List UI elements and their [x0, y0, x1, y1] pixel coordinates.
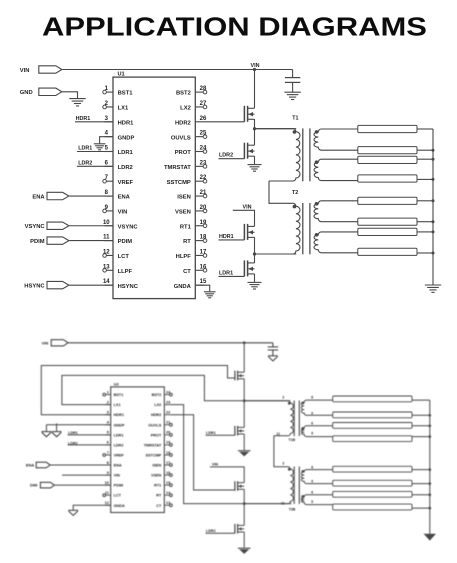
wire LX2 routing (pin 23)	[170, 405, 244, 504]
svg-text:HDR2: HDR2	[175, 120, 191, 126]
svg-text:ISEN: ISEN	[177, 195, 191, 201]
svg-text:14: 14	[103, 279, 110, 285]
transformer T1B core	[294, 401, 299, 437]
svg-text:TMRSTAT: TMRSTAT	[144, 443, 162, 447]
node brail-5	[429, 468, 432, 471]
input tag VIN (2nd diagram)	[42, 340, 68, 346]
wire VIN stub (bridge2 2nd)	[210, 467, 244, 483]
wire node C to Q6 drain	[243, 401, 245, 428]
svg-text:PROT: PROT	[175, 150, 192, 156]
lamp LAMP5	[358, 197, 417, 204]
svg-text:LDR2: LDR2	[219, 153, 233, 159]
wire Q6 source to ground	[243, 434, 245, 450]
pin 15 GNDA (U1 right)	[174, 279, 207, 290]
svg-text:DIM: DIM	[30, 483, 38, 488]
pin 16 CT (U1 right)	[183, 264, 207, 275]
node rail-5	[432, 199, 435, 202]
wire T1 primary to link	[269, 181, 293, 203]
svg-text:LDR1: LDR1	[118, 150, 134, 156]
svg-text:LDR2: LDR2	[118, 165, 133, 171]
wire node C to T1B primary	[244, 400, 290, 402]
input tag GND	[20, 88, 62, 96]
svg-text:RT: RT	[183, 239, 191, 245]
svg-text:LDR1: LDR1	[114, 433, 124, 437]
pin 10 VSYNC (U1 left)	[103, 220, 138, 231]
ground (GNDP a)	[42, 425, 52, 437]
wire lamp B1 to rail	[412, 399, 430, 401]
net label LDR1 (gate Q4)	[219, 270, 245, 276]
lamp LAMP2	[358, 147, 417, 154]
pin 20 PROT (U2 right)	[151, 431, 173, 438]
transformer T2 primary	[255, 203, 301, 254]
svg-text:RT: RT	[156, 494, 162, 498]
pin 19 RT1 (U1 right)	[180, 220, 207, 231]
wire lamp B8 to rail	[412, 507, 430, 509]
input tag VSYNC	[25, 222, 113, 230]
svg-text:10: 10	[103, 220, 110, 226]
capacitor C1	[285, 70, 300, 92]
node brail-7	[429, 493, 432, 496]
pin 21 OUVLS (U2 right)	[148, 421, 172, 428]
svg-text:6: 6	[311, 490, 313, 494]
svg-text:11: 11	[276, 432, 280, 436]
pin 15 RT1 (U2 right)	[154, 481, 172, 488]
svg-text:HSYNC: HSYNC	[24, 283, 45, 289]
pin 3 HDR1 (U1 left)	[105, 116, 135, 127]
pin 6 LDR2 (U2 left)	[105, 441, 124, 448]
transformer T1 secondary 2	[314, 159, 358, 180]
net label LDR1 (pin 5, 2nd)	[68, 431, 111, 435]
pin 18 SSTCMP (U2 right)	[145, 451, 172, 458]
wire lamp B2 to rail	[412, 414, 430, 416]
lamp LAMP4	[358, 175, 417, 182]
svg-text:VSYNC: VSYNC	[118, 224, 139, 230]
wire VIN to Q5 drain	[243, 343, 245, 372]
svg-text:TMRSTAT: TMRSTAT	[164, 165, 191, 171]
svg-text:11: 11	[103, 235, 110, 241]
net label VIN (bridge 2)	[243, 204, 252, 210]
svg-text:GNDA: GNDA	[174, 284, 192, 290]
svg-text:VREF: VREF	[114, 453, 125, 457]
svg-text:RT1: RT1	[154, 484, 161, 488]
pin 7 VREF (U2 left)	[103, 451, 125, 458]
wire lamp 6 to rail	[417, 221, 433, 223]
node brail-6	[429, 482, 432, 485]
node rail-7	[432, 230, 435, 233]
svg-text:PROT: PROT	[151, 433, 162, 437]
wire node D to T2B	[244, 503, 291, 505]
svg-text:10: 10	[105, 481, 109, 485]
svg-text:VIN: VIN	[212, 462, 218, 466]
wire Q7 source to node D	[243, 489, 245, 503]
node VIN junction	[253, 68, 256, 71]
svg-text:BST1: BST1	[118, 91, 134, 97]
input tag VIN	[20, 66, 62, 74]
wire Q5 source to node C	[243, 379, 245, 401]
svg-text:LLPF: LLPF	[118, 269, 133, 275]
svg-text:2: 2	[282, 396, 284, 400]
net label VIN (bridge2 2nd)	[212, 462, 218, 466]
svg-text:RT1: RT1	[180, 224, 192, 230]
svg-text:VIN: VIN	[20, 68, 30, 74]
pin 9 VIN (U1 left)	[103, 205, 127, 216]
pin 1 BST1 (U2 left)	[103, 390, 123, 397]
lamp LAMP-B4	[333, 436, 412, 442]
svg-text:2: 2	[282, 462, 284, 466]
transistor Q6 (LDR1 2nd)	[235, 426, 244, 436]
transistor Q7 (HDR2 2nd)	[235, 481, 244, 491]
input tag ENA (2nd)	[26, 462, 111, 468]
transformer T1 secondary 1	[314, 129, 358, 150]
wire LX1 routing (pin 2)	[62, 375, 244, 404]
input tag PDIM	[30, 237, 113, 245]
node D (bridge2 2nd)	[243, 502, 246, 505]
svg-text:8: 8	[311, 466, 313, 470]
wire VIN rail	[62, 69, 293, 71]
terminal labels T1B sec	[311, 395, 313, 435]
transformer T2 core	[303, 203, 310, 254]
svg-text:LDR1: LDR1	[206, 431, 216, 435]
ground (Q2 source)	[248, 165, 262, 172]
pin 1 BST1 (U1 left)	[103, 86, 133, 97]
wire VIN (pin 9, 2nd)	[62, 474, 111, 476]
svg-text:8: 8	[107, 461, 109, 465]
ground (Q4 source)	[248, 282, 262, 289]
transformer T1 core	[303, 128, 310, 181]
wire VIN to Q1 drain	[254, 70, 256, 109]
pin 24 BST2 (U2 right)	[152, 390, 173, 397]
pin 13 LLPF (U1 left)	[103, 264, 133, 275]
lamp LAMP-B6	[333, 480, 412, 486]
svg-text:BST2: BST2	[176, 91, 191, 97]
wire lamp 4 to rail	[417, 178, 433, 180]
svg-text:ENA: ENA	[114, 464, 122, 468]
node brail-8	[429, 507, 432, 510]
node rail-8	[432, 252, 435, 255]
svg-text:VSEN: VSEN	[151, 474, 162, 478]
wire node A to Q2 drain	[254, 129, 256, 146]
wire HDR1 routing (pin 3)	[41, 366, 235, 415]
svg-text:HDR1: HDR1	[219, 234, 234, 240]
svg-text:LX1: LX1	[118, 106, 129, 112]
pin 12 GNDA (U2 left)	[105, 501, 125, 508]
lamp LAMP7	[358, 228, 417, 235]
wire node B to Q4 drain	[254, 254, 256, 263]
ground (C1)	[284, 92, 300, 99]
svg-text:LCT: LCT	[118, 254, 130, 260]
node brail-4	[429, 435, 432, 438]
controller U2 box	[111, 382, 165, 513]
pin 23 LX2 (U2 right)	[154, 400, 170, 407]
svg-text:LX1: LX1	[114, 403, 121, 407]
net label HDR1 (pin 3)	[75, 116, 113, 122]
node rail-3	[432, 158, 435, 161]
transistor Q3 (HDR1)	[244, 224, 254, 240]
pin 16 VSEN (U2 right)	[151, 471, 172, 478]
wire lamp 5 to rail	[417, 200, 433, 202]
transformer T2B secondary 2	[301, 495, 332, 505]
pin 4 GNDP (U2 left)	[105, 421, 125, 428]
lamp LAMP-B3	[333, 423, 412, 429]
pin 21 ISEN (U1 right)	[177, 190, 207, 201]
wire GNDA (pin 15)	[195, 285, 209, 291]
transformer T2B core	[294, 467, 299, 504]
svg-text:HLPF: HLPF	[176, 254, 192, 260]
pin 9 VIN (U2 left)	[105, 471, 120, 478]
node C (bridge1 2nd)	[243, 399, 246, 402]
svg-text:HDR1: HDR1	[114, 413, 124, 417]
wire lamp B7 to rail	[412, 494, 430, 496]
wire Q3 source to node B	[254, 237, 256, 254]
pin 5 LDR1 (U2 left)	[105, 431, 124, 438]
input tag HSYNC	[24, 281, 113, 289]
net label LDR2 (pin 6, 2nd)	[68, 441, 111, 445]
svg-text:HDR2: HDR2	[151, 413, 161, 417]
title APPLICATION DIAGRAMS	[42, 13, 427, 42]
svg-text:HSYNC: HSYNC	[118, 284, 139, 290]
wire lamp B3 to rail	[412, 425, 430, 427]
wire lamp 3 to rail	[417, 158, 433, 160]
lamp LAMP1	[358, 125, 417, 132]
pin 22 HDR2 (U2 right)	[151, 411, 170, 418]
node VIN junction (2nd)	[243, 341, 246, 344]
net label LDR2 (gate Q2)	[219, 153, 245, 159]
svg-text:ENA: ENA	[118, 195, 131, 201]
node rail-2	[432, 149, 435, 152]
pin 17 HLPF (U1 right)	[176, 249, 207, 260]
transformer T1 primary	[255, 129, 301, 181]
input tag DIM (2nd)	[30, 482, 111, 488]
svg-text:ISEN: ISEN	[152, 464, 161, 468]
net label VIN (top rail)	[251, 63, 260, 69]
pin 5 LDR1 (U1 left)	[105, 146, 134, 157]
transformer T1B labels	[276, 396, 295, 442]
svg-text:15: 15	[200, 279, 207, 285]
svg-text:6: 6	[311, 421, 313, 425]
transformer T2B secondary 1	[301, 470, 332, 484]
pin 22 SSTCMP (U1 right)	[167, 175, 207, 186]
lamp LAMP-B2	[333, 412, 412, 418]
node brail-2	[429, 414, 432, 417]
wire node A to T1 primary	[255, 128, 297, 130]
wire GNDP (pin 4, 2nd)	[46, 424, 110, 426]
wire GNDA (pin 12, 2nd)	[73, 505, 111, 510]
svg-text:5: 5	[311, 500, 313, 504]
transistor Q1 (HDR2)	[244, 106, 254, 122]
transistor Q4 (LDR1)	[244, 260, 254, 276]
pin 12 LCT (U1 left)	[103, 249, 130, 260]
pin 11 PDIM (U1 left)	[103, 235, 132, 246]
wire lamp return rail	[432, 129, 434, 285]
svg-text:CT: CT	[183, 269, 191, 275]
wire GND	[62, 92, 78, 98]
svg-text:PDIM: PDIM	[114, 484, 124, 488]
lamp LAMP-B1	[333, 396, 412, 402]
svg-text:12: 12	[105, 501, 109, 505]
wire Q8 source to ground	[243, 532, 245, 547]
wire VIN stub (bridge 2)	[233, 210, 255, 226]
transformer T2 secondary 1	[314, 201, 358, 222]
svg-text:BST2: BST2	[152, 393, 162, 397]
pin 25 OUVLS (U1 right)	[171, 131, 207, 142]
pin 20 VSEN (U1 right)	[175, 205, 207, 216]
pin 4 GNDP (U1 left)	[105, 131, 135, 142]
pin 28 BST2 (U1 right)	[176, 86, 207, 97]
pin 7 VREF (U1 left)	[103, 175, 134, 186]
lamp LAMP6	[358, 218, 417, 225]
transformer T2B primary	[244, 467, 293, 504]
svg-text:LDR2: LDR2	[114, 443, 124, 447]
wire node B to T2 primary	[255, 253, 297, 255]
net label LDR1 (gate Q6)	[206, 431, 235, 436]
svg-text:PDIM: PDIM	[118, 239, 133, 245]
pin 8 ENA (U2 left)	[105, 461, 122, 468]
svg-text:5: 5	[107, 431, 109, 435]
wire lamp 8 to rail	[417, 252, 433, 254]
svg-text:T1: T1	[292, 116, 298, 122]
svg-text:LX2: LX2	[180, 106, 191, 112]
wire VIN rail (2nd)	[68, 342, 273, 344]
net label LDR2 (gate Q8)	[206, 529, 235, 534]
wire T1B to T2B link	[274, 436, 288, 467]
input tag ENA	[32, 192, 113, 200]
lamp LAMP3	[358, 156, 417, 163]
pin 13 CT (U2 right)	[156, 501, 172, 508]
svg-text:VSYNC: VSYNC	[25, 224, 46, 230]
wire lamp return rail (2nd)	[429, 400, 431, 534]
net label HDR1 (gate Q3)	[219, 234, 245, 240]
pin 8 ENA (U1 left)	[105, 190, 131, 201]
net label LDR1 (pin 5)	[77, 145, 113, 151]
svg-text:HDR1: HDR1	[76, 116, 91, 122]
pin 10 PDIM (U2 left)	[105, 481, 123, 488]
pin 2 LX1 (U1 left)	[103, 101, 129, 112]
pin 19 TMRSTAT (U2 right)	[144, 441, 173, 448]
svg-text:GND: GND	[20, 90, 33, 96]
svg-text:BST1: BST1	[114, 393, 124, 397]
svg-text:2: 2	[107, 400, 109, 404]
transformer T1B secondary 2	[301, 426, 332, 437]
node B (bridge2 output)	[253, 252, 256, 255]
svg-text:GNDA: GNDA	[114, 504, 125, 508]
pin 14 RT (U2 right)	[156, 491, 172, 498]
op-amp/controller U1 box	[113, 72, 195, 299]
ground (GNDP)	[94, 144, 106, 150]
ground (GNDP b)	[52, 423, 62, 436]
transformer T1B secondary 1	[301, 400, 332, 415]
transformer T2B labels	[281, 462, 296, 512]
svg-text:SSTCMP: SSTCMP	[145, 453, 161, 457]
wire lamp B5 to rail	[412, 469, 430, 471]
svg-text:LDR2: LDR2	[78, 160, 92, 166]
transformer T1 label	[292, 116, 298, 122]
svg-text:APPLICATION DIAGRAMS: APPLICATION DIAGRAMS	[42, 13, 427, 42]
svg-text:3: 3	[107, 411, 109, 415]
transistor Q2 (LDR2)	[244, 143, 254, 159]
lamp LAMP8	[358, 248, 417, 255]
node A (bridge1 output)	[253, 127, 256, 130]
svg-text:U2: U2	[114, 382, 120, 387]
pin 27 LX2 (U1 right)	[180, 101, 207, 112]
ground (Q8 source)	[238, 548, 251, 554]
svg-text:GNDP: GNDP	[118, 135, 135, 141]
lamp LAMP-B7	[333, 491, 412, 497]
svg-text:T2: T2	[292, 190, 298, 196]
svg-text:CT: CT	[156, 504, 162, 508]
transformer T2 label	[292, 190, 298, 196]
svg-text:LDR1: LDR1	[219, 270, 233, 276]
ground (lamp rail 2nd)	[424, 534, 436, 541]
pin 18 RT (U1 right)	[183, 235, 207, 246]
pin 2 LX1 (U2 left)	[105, 400, 121, 407]
transformer T2 secondary 2	[314, 232, 358, 253]
svg-text:VIN: VIN	[243, 204, 252, 210]
lamp LAMP-B8	[333, 504, 412, 510]
ground (GND input)	[69, 99, 85, 106]
pin 14 HSYNC (U1 left)	[103, 279, 139, 290]
svg-text:PDIM: PDIM	[30, 239, 45, 245]
ground (C2)	[268, 356, 278, 361]
svg-text:6: 6	[107, 441, 109, 445]
node brail-3	[429, 425, 432, 428]
svg-text:VIN: VIN	[118, 210, 128, 216]
net label LDR2 (pin 6)	[77, 160, 113, 166]
wire lamp B6 to rail	[412, 483, 430, 485]
wire lamp 2 to rail	[417, 149, 433, 151]
ground (GNDA)	[204, 292, 216, 298]
wire lamp 7 to rail	[417, 231, 433, 233]
lamp LAMP-B5	[333, 466, 412, 472]
pin 11 LCT (U2 left)	[103, 491, 122, 498]
svg-text:5: 5	[311, 432, 313, 436]
svg-text:VIN: VIN	[251, 63, 260, 69]
svg-text:1: 1	[107, 390, 109, 394]
node rail-6	[432, 220, 435, 223]
transistor Q5 (HDR1 2nd)	[235, 371, 244, 381]
svg-text:23: 23	[166, 400, 170, 404]
svg-text:9: 9	[311, 480, 313, 484]
pin 23 TMRSTAT (U1 right)	[164, 160, 207, 171]
svg-text:7: 7	[107, 451, 109, 455]
svg-text:ENA: ENA	[26, 463, 35, 468]
svg-text:LDR1: LDR1	[78, 145, 92, 151]
svg-text:OUVLS: OUVLS	[148, 423, 162, 427]
svg-text:VSEN: VSEN	[175, 210, 191, 216]
wire lamp 1 to rail	[417, 128, 433, 130]
capacitor C2	[268, 343, 278, 356]
svg-text:U1: U1	[118, 72, 125, 78]
ground (GNDA 2nd)	[68, 510, 78, 515]
svg-text:26: 26	[200, 116, 207, 122]
ground (Q6 source)	[238, 451, 251, 457]
wire lamp B4 to rail	[412, 436, 430, 438]
pin 24 PROT (U1 right)	[175, 146, 207, 157]
svg-text:VREF: VREF	[118, 180, 134, 186]
pin 3 HDR1 (U2 left)	[105, 411, 124, 418]
svg-text:LCT: LCT	[114, 494, 122, 498]
wire Q2 source to ground	[254, 156, 256, 164]
wire GNDP (pin 4)	[100, 137, 113, 144]
svg-text:T1B: T1B	[289, 438, 296, 442]
svg-text:VIN: VIN	[114, 474, 121, 478]
svg-text:OUVLS: OUVLS	[171, 135, 191, 141]
svg-text:T2B: T2B	[289, 507, 296, 511]
svg-text:22: 22	[166, 411, 170, 415]
terminal labels T2B sec	[311, 466, 313, 504]
wire HDR2 gate (pin 26)	[204, 121, 244, 123]
svg-text:ENA: ENA	[32, 194, 45, 200]
pin 26 HDR2 (U1 right)	[175, 116, 207, 127]
